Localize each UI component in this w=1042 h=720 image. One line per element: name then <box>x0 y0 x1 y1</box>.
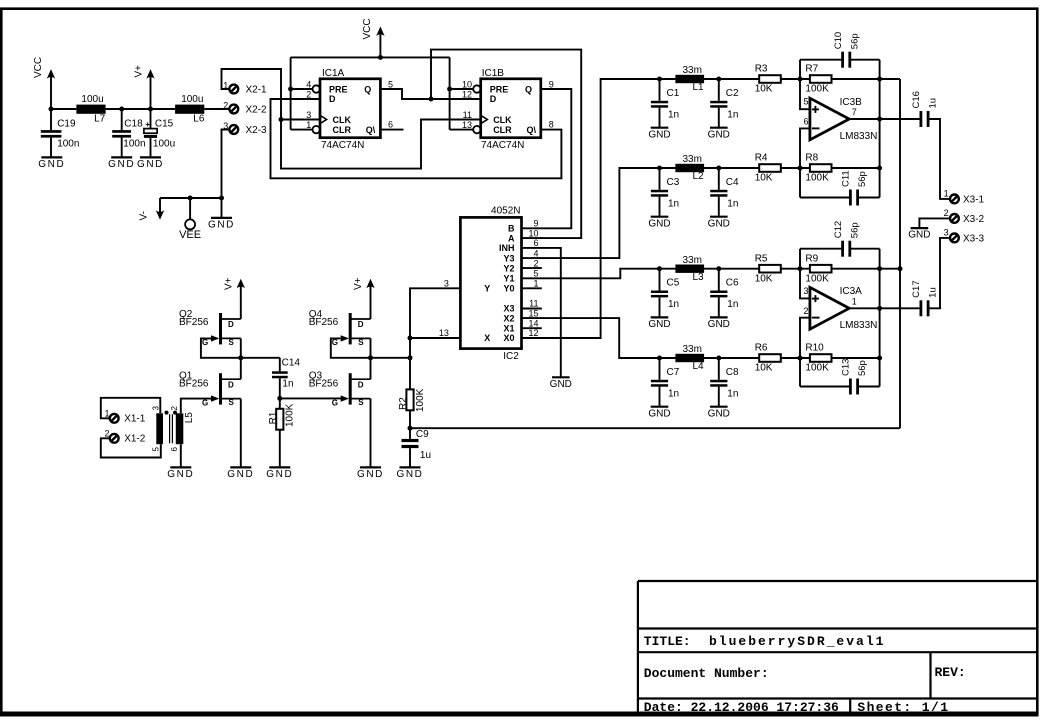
svg-text:INH: INH <box>499 243 515 253</box>
wire IC1A Qbar stub <box>380 129 403 131</box>
junction <box>378 55 383 60</box>
ground <box>710 216 728 218</box>
connector X3-3 <box>950 234 959 243</box>
junction <box>798 166 803 171</box>
inductor L3 33m <box>675 265 704 273</box>
svg-text:1: 1 <box>944 189 949 199</box>
svg-text:GND: GND <box>38 159 65 170</box>
svg-text:2: 2 <box>533 258 538 268</box>
svg-text:R5: R5 <box>755 253 768 264</box>
svg-text:GND: GND <box>227 469 254 480</box>
svg-text:X1-1: X1-1 <box>124 414 146 425</box>
svg-text:Q\: Q\ <box>526 125 536 135</box>
junction <box>716 77 721 82</box>
svg-text:2: 2 <box>104 429 109 439</box>
wire op-amp output to C17 <box>849 307 920 309</box>
wire bias to right section <box>410 427 900 429</box>
wire 4052 Y3 to filter row 2 <box>522 168 880 258</box>
svg-text:100u: 100u <box>153 139 175 150</box>
svg-text:GND: GND <box>648 319 670 330</box>
connector X2-1 <box>229 85 238 94</box>
svg-text:REV:: REV: <box>935 665 966 680</box>
junction <box>408 426 413 431</box>
svg-text:GND: GND <box>137 159 164 170</box>
connector X3-1 <box>950 195 959 204</box>
wire IC1A Q to IC1B D <box>380 89 480 99</box>
svg-text:CLK: CLK <box>333 115 352 125</box>
svg-text:D: D <box>329 94 336 104</box>
svg-text:C1: C1 <box>667 88 680 99</box>
wire Q2 gate-source loop <box>201 338 280 357</box>
wire 4052 Y1 to filter row 3 <box>522 269 901 279</box>
svg-text:S: S <box>358 338 364 347</box>
flip-flop IC1A 74AC74N <box>320 79 380 138</box>
capacitor C18 100n <box>121 109 123 130</box>
junction <box>657 77 662 82</box>
svg-text:CLK: CLK <box>493 115 512 125</box>
ground <box>111 156 132 158</box>
svg-text:GND: GND <box>648 408 670 419</box>
ground <box>651 127 669 129</box>
svg-text:Date: 22.12.2006 17:27:36: Date: 22.12.2006 17:27:36 <box>644 700 839 715</box>
svg-text:10: 10 <box>462 79 472 89</box>
svg-text:C14: C14 <box>282 358 301 369</box>
svg-text:100n: 100n <box>123 139 145 150</box>
wire X2-3 to GND/VEE/V- node <box>222 130 229 199</box>
svg-text:C5: C5 <box>667 278 680 289</box>
svg-text:L3: L3 <box>693 272 705 283</box>
svg-text:3: 3 <box>944 228 949 238</box>
junction <box>716 356 721 361</box>
svg-text:3: 3 <box>444 278 449 288</box>
junction <box>408 355 413 360</box>
svg-text:L5: L5 <box>184 412 195 424</box>
transistor Q2 BF256 <box>219 313 222 344</box>
capacitor C14 1n <box>279 358 281 372</box>
svg-text:G: G <box>332 338 338 347</box>
svg-text:33m: 33m <box>683 344 702 355</box>
svg-text:BF256: BF256 <box>179 317 209 328</box>
ground <box>360 466 381 468</box>
wire Q1 drain to Q2 source node <box>240 358 242 379</box>
svg-text:R10: R10 <box>805 343 824 354</box>
svg-text:33m: 33m <box>683 255 702 266</box>
wire bias rail joining row1 and row3 <box>899 79 901 428</box>
capacitor C19 100n <box>50 109 52 130</box>
svg-text:10K: 10K <box>755 273 773 284</box>
supply symbol V- <box>159 198 161 212</box>
junction <box>657 166 662 171</box>
junction <box>798 77 803 82</box>
junction <box>877 77 882 82</box>
svg-text:IC1B: IC1B <box>482 68 505 79</box>
svg-text:5: 5 <box>388 79 393 89</box>
ground <box>400 466 421 468</box>
svg-text:56p: 56p <box>857 171 868 187</box>
wire stub X1 <box>522 327 542 329</box>
svg-text:+: + <box>145 120 150 129</box>
wire Q1 source to ground <box>240 399 242 467</box>
wire IC1B Qbar feedback to IC1A D <box>271 99 562 178</box>
svg-text:X3: X3 <box>503 304 514 314</box>
wire X2-1 clock to IC1A CLK and IC1B CLK <box>222 69 481 169</box>
junction <box>898 266 903 271</box>
junction <box>877 306 882 311</box>
svg-text:C19: C19 <box>57 119 76 130</box>
svg-text:5: 5 <box>151 447 160 452</box>
svg-text:12: 12 <box>462 90 472 100</box>
svg-text:C17: C17 <box>911 280 922 297</box>
svg-text:Document Number:: Document Number: <box>644 666 769 681</box>
svg-text:1n: 1n <box>668 110 679 121</box>
ground <box>41 156 62 158</box>
svg-text:V+: V+ <box>353 277 364 290</box>
svg-text:GND: GND <box>648 129 670 140</box>
svg-text:2: 2 <box>944 208 949 218</box>
svg-text:D: D <box>358 380 364 389</box>
svg-text:1n: 1n <box>282 379 293 390</box>
svg-text:100K: 100K <box>805 84 829 95</box>
junction <box>657 266 662 271</box>
svg-text:74AC74N: 74AC74N <box>321 140 364 151</box>
svg-text:100K: 100K <box>805 363 829 374</box>
wire VCC to IC1A PRE and CLR <box>290 57 292 129</box>
svg-text:1n: 1n <box>668 389 679 400</box>
svg-text:Y2: Y2 <box>503 263 514 273</box>
inductor L7 100u <box>76 105 105 114</box>
svg-text:X0: X0 <box>503 333 514 343</box>
connector X3-2 <box>950 214 959 223</box>
svg-text:X2-3: X2-3 <box>246 125 268 136</box>
ground <box>710 127 728 129</box>
svg-text:1: 1 <box>852 297 857 307</box>
svg-text:100u: 100u <box>181 94 203 105</box>
multiplexer IC2 4052N <box>460 217 521 348</box>
svg-text:V+: V+ <box>224 277 235 290</box>
capacitor C12 56p <box>800 248 842 250</box>
junction <box>429 97 434 102</box>
capacitor C13 56p <box>800 386 849 388</box>
transformer L5 <box>156 413 163 444</box>
svg-text:PRE: PRE <box>329 84 348 94</box>
svg-text:3: 3 <box>306 110 311 120</box>
svg-text:1n: 1n <box>727 299 738 310</box>
svg-text:56p: 56p <box>849 33 860 49</box>
svg-text:10K: 10K <box>755 363 773 374</box>
svg-text:4: 4 <box>306 79 311 89</box>
svg-text:9: 9 <box>549 79 554 89</box>
transistor Q3 BF256 <box>349 373 352 404</box>
svg-text:5: 5 <box>533 269 538 279</box>
junction <box>148 107 153 112</box>
supply symbol VEE <box>189 198 191 219</box>
svg-text:6: 6 <box>388 120 393 130</box>
wire L5 pin 2 to Q1 gate <box>181 399 212 414</box>
wire node to op-amp - input <box>800 318 810 387</box>
ground <box>211 217 232 219</box>
capacitor C4 1n <box>718 168 720 190</box>
svg-text:1u: 1u <box>928 98 939 109</box>
svg-text:L1: L1 <box>693 82 705 93</box>
svg-text:R6: R6 <box>755 343 768 354</box>
junction <box>798 266 803 271</box>
svg-text:1n: 1n <box>668 199 679 210</box>
svg-text:12: 12 <box>528 328 538 338</box>
ground <box>170 466 191 468</box>
svg-text:R8: R8 <box>805 153 818 164</box>
svg-text:1n: 1n <box>727 110 738 121</box>
svg-text:Y3: Y3 <box>503 253 514 263</box>
capacitor C5 1n <box>659 269 661 291</box>
svg-text:2: 2 <box>170 406 179 411</box>
capacitor C6 1n <box>718 269 720 291</box>
svg-text:X2: X2 <box>503 313 514 323</box>
ground <box>911 227 929 229</box>
svg-text:LM833N: LM833N <box>840 320 878 331</box>
svg-text:R9: R9 <box>805 253 818 264</box>
svg-text:1: 1 <box>104 409 109 419</box>
svg-text:S: S <box>229 398 235 407</box>
svg-text:13: 13 <box>439 328 449 338</box>
svg-text:C13: C13 <box>841 359 852 376</box>
svg-text:GND: GND <box>708 129 730 140</box>
capacitor C16 1u <box>920 111 923 127</box>
svg-text:V+: V+ <box>133 65 144 78</box>
junction <box>219 196 224 201</box>
wire op-amp output to C16 <box>849 118 920 120</box>
svg-text:GND: GND <box>708 218 730 229</box>
svg-text:X2-1: X2-1 <box>246 84 268 95</box>
svg-text:C3: C3 <box>667 177 680 188</box>
svg-text:10K: 10K <box>755 84 773 95</box>
wire INH to ground <box>522 248 561 377</box>
svg-text:C8: C8 <box>726 367 739 378</box>
svg-text:X2-2: X2-2 <box>246 104 268 115</box>
svg-text:C4: C4 <box>726 177 739 188</box>
svg-text:A: A <box>508 233 515 243</box>
wire op-amp feedback vertical <box>879 60 881 198</box>
svg-text:R1: R1 <box>268 411 279 424</box>
wire feedback node A to op-amp + input <box>800 60 810 109</box>
svg-text:PRE: PRE <box>490 84 509 94</box>
svg-text:VCC: VCC <box>362 18 373 39</box>
svg-text:L4: L4 <box>693 361 705 372</box>
svg-text:11: 11 <box>529 299 538 309</box>
wire op-amp feedback vertical <box>879 249 881 387</box>
svg-text:5: 5 <box>803 97 808 107</box>
wire feedback node to op-amp + input <box>800 249 810 299</box>
svg-text:X1: X1 <box>503 323 514 333</box>
svg-text:GND: GND <box>908 230 930 241</box>
resistor R2 100K <box>406 389 413 410</box>
svg-text:Q\: Q\ <box>366 125 376 135</box>
svg-text:2: 2 <box>803 306 808 316</box>
inductor L2 33m <box>675 164 704 172</box>
wire 4052 X0 to filter row 1 <box>522 79 901 338</box>
svg-text:C11: C11 <box>841 170 852 187</box>
resistor R3 10K <box>759 75 781 83</box>
resistor R5 10K <box>759 265 781 273</box>
wire stub Y2 <box>522 267 542 269</box>
junction <box>877 166 882 171</box>
svg-text:Y1: Y1 <box>503 274 514 284</box>
capacitor C10 56p <box>800 59 842 61</box>
svg-text:V-: V- <box>139 211 150 220</box>
svg-text:15: 15 <box>528 308 538 318</box>
wire Q2 source down <box>240 338 242 357</box>
capacitor C9 1u <box>409 428 411 439</box>
wire mux X input <box>410 337 460 339</box>
resistor R9 100K <box>810 265 832 273</box>
svg-text:GND: GND <box>208 220 235 231</box>
svg-text:S: S <box>229 338 235 347</box>
junction <box>119 107 124 112</box>
svg-text:GND: GND <box>357 469 384 480</box>
svg-text:GND: GND <box>396 469 423 480</box>
svg-text:VEE: VEE <box>179 229 201 241</box>
svg-text:100K: 100K <box>805 273 829 284</box>
svg-text:1n: 1n <box>668 299 679 310</box>
capacitor C1 1n <box>659 79 661 101</box>
wire mux Y input <box>410 288 460 389</box>
svg-text:GND: GND <box>708 408 730 419</box>
inductor L4 33m <box>675 354 704 362</box>
svg-text:X3-2: X3-2 <box>963 214 985 225</box>
svg-text:X3-3: X3-3 <box>963 233 985 244</box>
svg-text:D: D <box>358 320 364 329</box>
svg-text:S: S <box>358 398 364 407</box>
junction <box>49 107 54 112</box>
junction <box>368 355 373 360</box>
wire 4052 X2 to filter row 4 <box>522 318 880 358</box>
svg-text:X3-1: X3-1 <box>963 194 985 205</box>
svg-text:13: 13 <box>462 120 472 130</box>
junction <box>288 87 293 92</box>
svg-text:LM833N: LM833N <box>840 131 878 142</box>
svg-text:2: 2 <box>223 100 228 110</box>
junction <box>279 117 284 122</box>
wire C16 to X3-1 <box>929 119 949 199</box>
svg-text:BF256: BF256 <box>309 317 339 328</box>
capacitor C8 1n <box>718 358 720 380</box>
wire C17 to X3-3 <box>929 238 949 308</box>
svg-text:1n: 1n <box>727 389 738 400</box>
svg-text:C7: C7 <box>667 367 680 378</box>
svg-text:L2: L2 <box>693 171 705 182</box>
svg-text:X: X <box>484 333 490 343</box>
svg-text:GND: GND <box>648 218 670 229</box>
wire stub X3 <box>522 308 542 310</box>
svg-text:74AC74N: 74AC74N <box>481 140 524 151</box>
svg-text:14: 14 <box>528 318 538 328</box>
svg-text:100K: 100K <box>285 403 296 427</box>
svg-text:100n: 100n <box>57 139 79 150</box>
junction <box>877 356 882 361</box>
junction <box>798 166 803 171</box>
capacitor C7 1n <box>659 358 661 380</box>
connector X1-2 <box>110 434 119 443</box>
junction <box>238 355 243 360</box>
junction <box>447 87 452 92</box>
svg-text:Q: Q <box>364 84 371 94</box>
svg-text:Y0: Y0 <box>503 284 514 294</box>
junction <box>408 336 413 341</box>
title block frame <box>637 581 639 713</box>
svg-text:C10: C10 <box>833 32 844 49</box>
junction <box>798 356 803 361</box>
wire node B to op-amp - input <box>800 128 810 197</box>
supply symbol VCC <box>376 26 384 36</box>
resistor R4 10K <box>759 164 781 172</box>
svg-text:33m: 33m <box>683 65 702 76</box>
supply symbol V+ <box>146 69 154 79</box>
svg-text:4: 4 <box>533 248 538 258</box>
wire VCC rail for flip-flop preset/clear <box>291 56 450 58</box>
wire L5 pin 6 to ground <box>180 444 182 467</box>
svg-text:1: 1 <box>533 279 538 289</box>
svg-text:1u: 1u <box>928 287 939 298</box>
wire Q3 drain to Q4 source node <box>370 358 372 379</box>
capacitor C11 56p <box>800 197 849 199</box>
svg-text:GND: GND <box>167 469 194 480</box>
junction <box>277 396 282 401</box>
svg-text:C12: C12 <box>833 221 844 238</box>
svg-text:Q: Q <box>525 84 532 94</box>
ground <box>552 376 570 378</box>
svg-text:C6: C6 <box>726 278 739 289</box>
resistor R8 100K <box>810 164 832 172</box>
junction <box>877 117 882 122</box>
wire Q4 gate-source loop <box>331 338 410 357</box>
resistor R6 10K <box>759 354 781 362</box>
wire X1-2 to L5 pin 5 <box>101 438 161 457</box>
svg-text:100K: 100K <box>805 173 829 184</box>
svg-text:33m: 33m <box>683 154 702 165</box>
svg-text:Y: Y <box>484 284 490 294</box>
inductor L6 100u <box>175 105 204 114</box>
svg-text:6: 6 <box>533 238 538 248</box>
svg-text:B: B <box>508 224 515 234</box>
connector X1-1 <box>110 414 119 423</box>
svg-text:C15: C15 <box>155 119 174 130</box>
svg-text:9: 9 <box>533 219 538 229</box>
svg-text:R3: R3 <box>755 64 768 75</box>
svg-text:D: D <box>228 320 234 329</box>
junction <box>877 266 882 271</box>
wire X3-2 to ground <box>919 218 949 227</box>
svg-text:CLR: CLR <box>333 125 352 135</box>
svg-text:R4: R4 <box>755 153 768 164</box>
svg-text:1: 1 <box>306 120 311 130</box>
svg-text:IC2: IC2 <box>503 351 519 362</box>
svg-text:C16: C16 <box>911 91 922 108</box>
svg-text:56p: 56p <box>857 360 868 376</box>
svg-text:D: D <box>490 94 497 104</box>
ground <box>230 466 251 468</box>
junction <box>716 166 721 171</box>
svg-text:C18: C18 <box>124 119 143 130</box>
svg-text:56p: 56p <box>849 222 860 238</box>
ground <box>651 316 669 318</box>
svg-text:100K: 100K <box>415 388 426 412</box>
wire CLK stub IC1A <box>281 119 320 121</box>
resistor R1 100K <box>279 398 281 408</box>
ground <box>269 466 290 468</box>
transistor Q4 BF256 <box>349 313 352 344</box>
svg-text:BF256: BF256 <box>179 378 209 389</box>
junction <box>188 196 193 201</box>
svg-text:GND: GND <box>708 319 730 330</box>
